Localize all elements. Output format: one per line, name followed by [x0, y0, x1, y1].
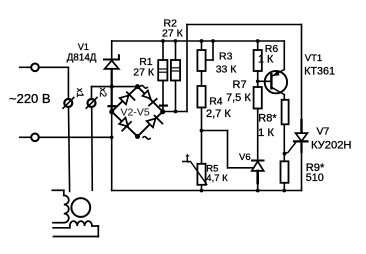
svg-text:t: t [186, 151, 190, 166]
svg-text:R4: R4 [209, 95, 223, 107]
svg-text:КУ202Н: КУ202Н [311, 139, 352, 151]
svg-text:VT1: VT1 [305, 53, 322, 64]
svg-text:33 К: 33 К [216, 64, 238, 76]
svg-text:R3: R3 [219, 51, 233, 63]
svg-text:V1: V1 [78, 42, 89, 52]
svg-text:27 К: 27 К [133, 66, 155, 78]
svg-text:V7: V7 [317, 126, 330, 138]
svg-text:2,7 К: 2,7 К [206, 108, 231, 120]
svg-text:510: 510 [306, 172, 324, 184]
svg-text:~220 В: ~220 В [9, 91, 51, 106]
svg-text:R8*: R8* [258, 112, 277, 124]
svg-text:КТ361: КТ361 [304, 66, 335, 78]
svg-text:27 К: 27 К [162, 27, 184, 39]
svg-text:1 К: 1 К [258, 54, 274, 66]
svg-text:x1: x1 [75, 88, 85, 98]
svg-text:Д814Д: Д814Д [67, 52, 97, 63]
svg-text:1 К: 1 К [258, 127, 274, 139]
svg-text:7,5 К: 7,5 К [226, 92, 251, 104]
svg-text:V6: V6 [239, 152, 251, 163]
svg-text:R7: R7 [233, 79, 247, 91]
svg-text:V2-V5: V2-V5 [121, 107, 150, 119]
svg-text:x2: x2 [98, 88, 108, 98]
svg-text:4,7 К: 4,7 К [206, 173, 228, 184]
